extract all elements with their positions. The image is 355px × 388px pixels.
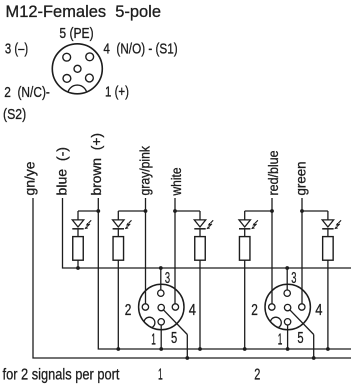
svg-text:1 (+): 1 (+): [105, 84, 129, 101]
svg-text:for 2 signals per port: for 2 signals per port: [3, 366, 121, 383]
svg-text:3 (–): 3 (–): [5, 42, 28, 58]
svg-text:(S2): (S2): [3, 106, 26, 123]
svg-text:2 (N/C)-: 2 (N/C)-: [4, 84, 50, 101]
svg-text:2: 2: [254, 366, 260, 383]
svg-text:blue (-): blue (-): [55, 147, 70, 196]
svg-text:green: green: [294, 162, 309, 196]
svg-text:M12-Females 5-pole: M12-Females 5-pole: [6, 2, 162, 21]
svg-text:white: white: [169, 168, 184, 197]
svg-text:5 (PE): 5 (PE): [59, 26, 93, 42]
svg-text:4 (N/O) - (S1): 4 (N/O) - (S1): [103, 41, 177, 57]
svg-text:1: 1: [158, 366, 163, 383]
svg-text:gn/ye: gn/ye: [23, 162, 38, 196]
svg-text:brown (+): brown (+): [89, 133, 104, 196]
svg-text:gray/pink: gray/pink: [138, 146, 153, 196]
svg-text:red/blue: red/blue: [266, 151, 281, 196]
